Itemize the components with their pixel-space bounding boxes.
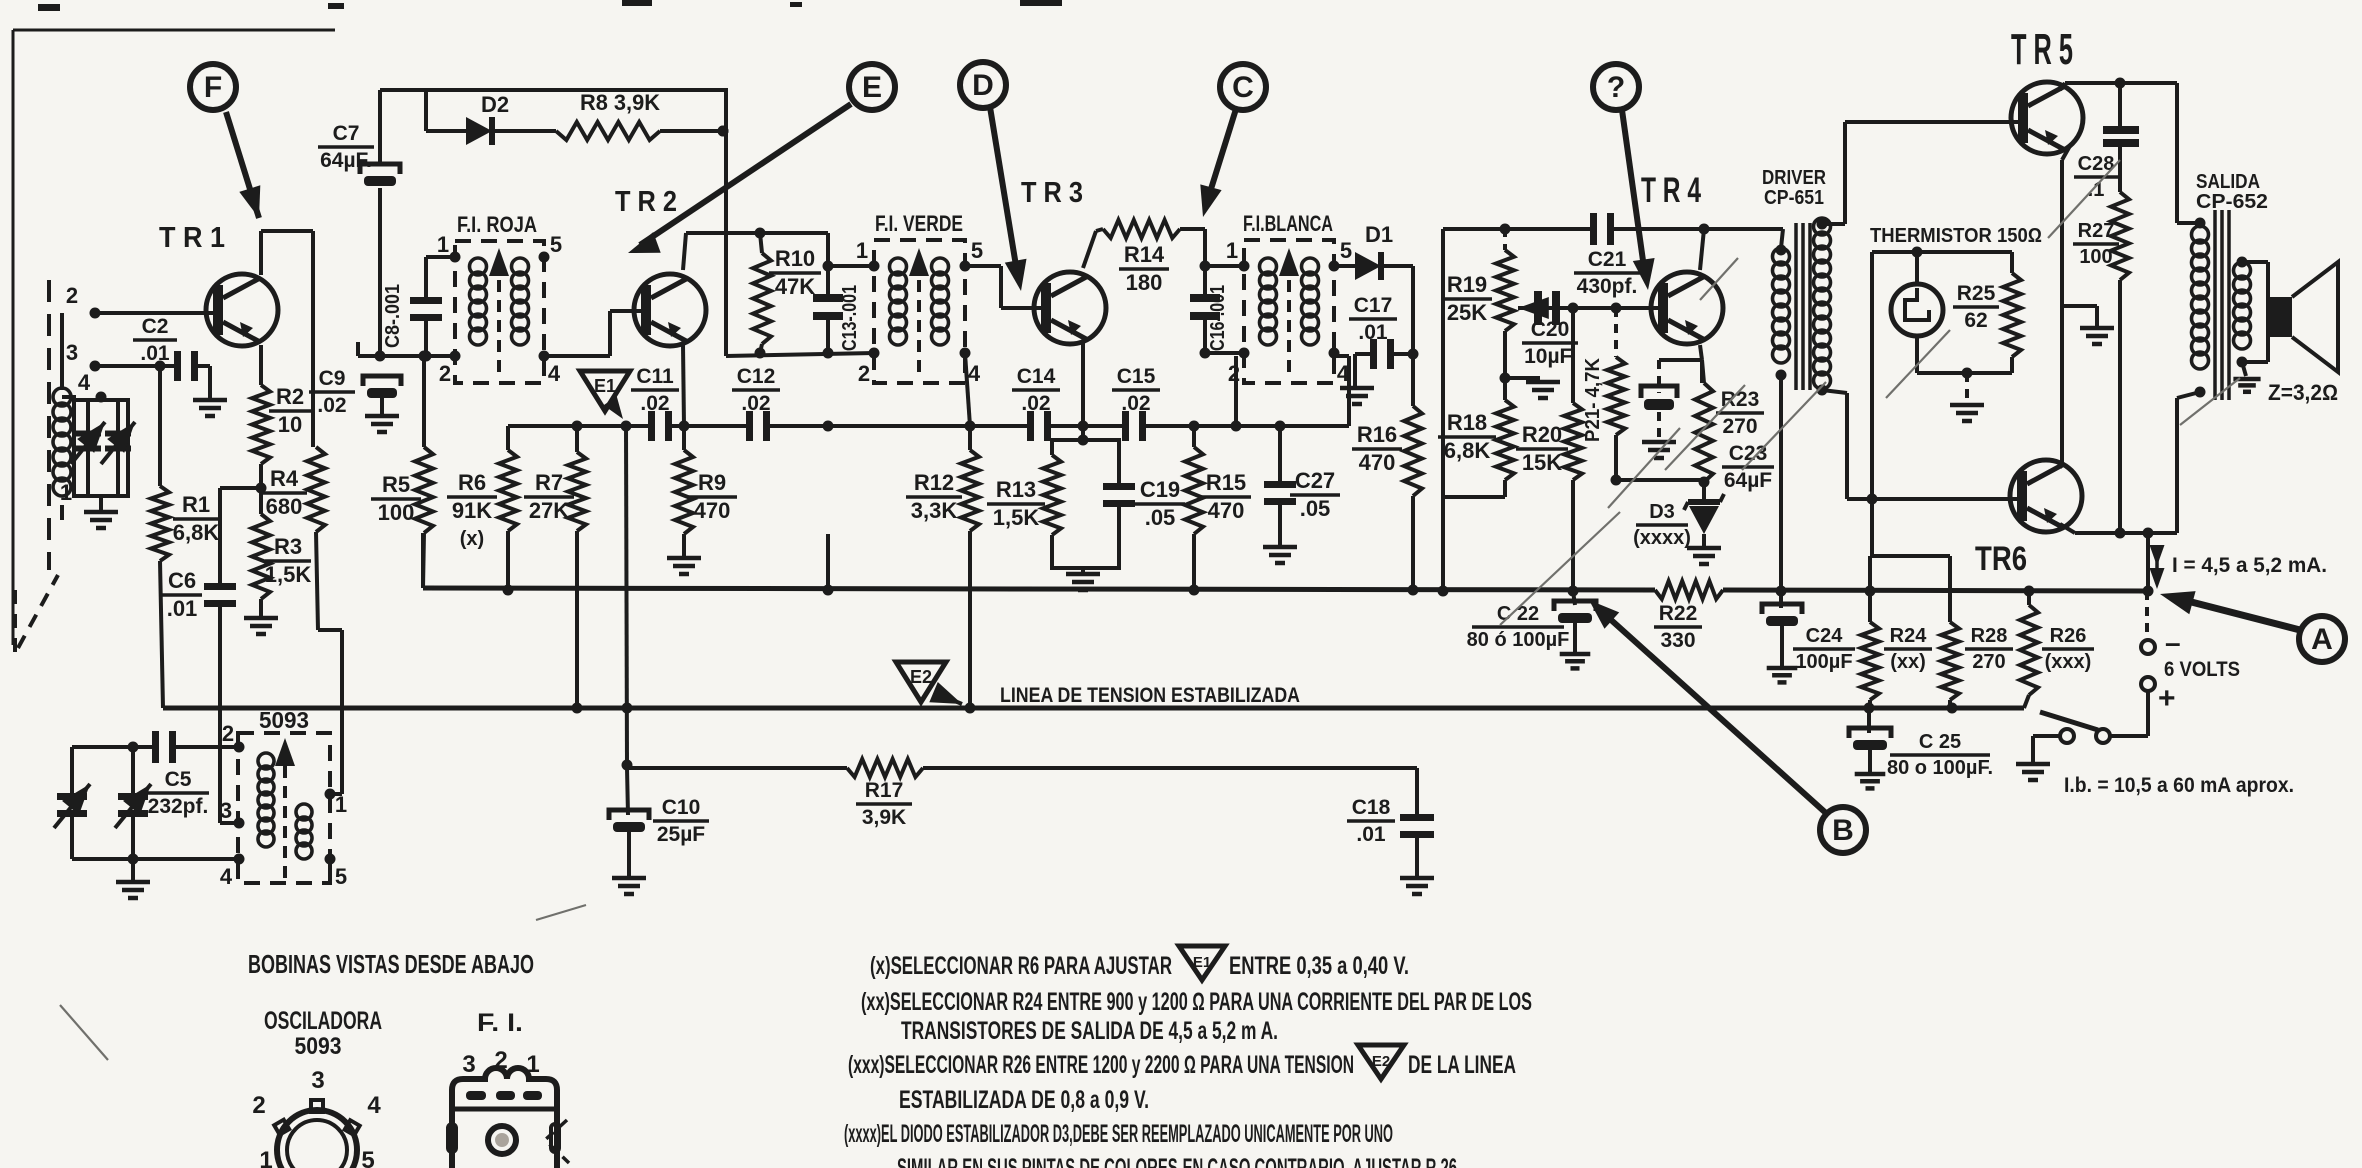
svg-text:R13: R13: [996, 477, 1036, 502]
capacitor C6: [204, 583, 236, 607]
svg-text:C12: C12: [737, 365, 776, 388]
wire C8 to ROJA pin1: [426, 255, 455, 259]
resistor R27: [2111, 192, 2129, 533]
switch: [2040, 712, 2110, 743]
svg-text:64µF.: 64µF.: [320, 149, 372, 172]
svg-text:R2: R2: [276, 384, 304, 409]
transistor TR3: [1034, 272, 1106, 344]
svg-text:C27: C27: [1295, 468, 1335, 493]
resistor R13: [1043, 455, 1061, 535]
wire y353 row: [726, 353, 874, 356]
svg-text:62: 62: [1964, 309, 1987, 332]
node R28 bus708: [1947, 703, 1958, 714]
svg-text:.01: .01: [140, 342, 170, 365]
wire TR4 base row: [1568, 303, 1659, 314]
svg-text:.1: .1: [2088, 179, 2105, 201]
label C5: [147, 768, 209, 818]
node thermistor chain bus590: [1865, 586, 1876, 597]
F.I. VERDE secondary winding: [932, 258, 949, 345]
wire R18 bottom link: [1443, 495, 1505, 499]
wire bus426 segment2: [668, 424, 750, 428]
test point B: [1820, 807, 1866, 853]
label R8 3,9K: [580, 90, 660, 115]
svg-text:C 25: C 25: [1919, 731, 1961, 753]
wire osc pin5 down: [328, 859, 332, 883]
resistor R2: [252, 385, 270, 464]
test point D: [960, 62, 1006, 108]
current arrows: [2150, 545, 2165, 589]
svg-text:R12: R12: [914, 470, 954, 495]
capacitor C11: [648, 411, 672, 441]
label R25: [1953, 282, 1999, 332]
svg-text:E2: E2: [1372, 1053, 1390, 1070]
ground C25: [1855, 774, 1886, 788]
ground emitter cap: [1642, 442, 1676, 458]
capacitor C10: [609, 768, 649, 876]
wire antenna pin3 row: [95, 364, 160, 368]
resistor R16: [1404, 354, 1422, 590]
label linea: [1000, 684, 1300, 707]
osc pin 3: [220, 798, 245, 829]
svg-text:(xx): (xx): [1890, 651, 1926, 673]
svg-text:R26: R26: [2050, 625, 2087, 647]
label C10: [653, 796, 709, 846]
label R16: [1352, 422, 1402, 475]
label R26: [2042, 625, 2094, 673]
svg-text:80 o 100µF.: 80 o 100µF.: [1887, 757, 1993, 779]
node C27 top: [1275, 421, 1286, 432]
wire C7 to junction: [378, 188, 382, 356]
svg-text:.02: .02: [1021, 392, 1050, 415]
wire osc pin1 link: [330, 792, 342, 796]
wire R17 bus: [622, 760, 1418, 771]
svg-text:330: 330: [1660, 629, 1695, 652]
svg-text:E2: E2: [910, 667, 932, 687]
svg-text:5093: 5093: [259, 707, 309, 733]
label 5093: [259, 707, 309, 733]
svg-text:CP-651: CP-651: [1764, 186, 1824, 209]
svg-text:F. I.: F. I.: [477, 1009, 523, 1037]
wire TR5 emitter down: [2062, 144, 2071, 462]
test point E1 triangle: [580, 371, 630, 419]
arrow from test point to TR4 base: [1622, 110, 1655, 290]
resistor R23: [1695, 360, 1713, 482]
svg-text:3: 3: [462, 1051, 475, 1078]
wire TR4 collector: [1700, 229, 1704, 270]
svg-text:180: 180: [1126, 270, 1163, 295]
node varcap2 top: [128, 742, 139, 753]
label R1: [173, 492, 220, 545]
osc pin 2: [222, 721, 245, 753]
label C12: [732, 365, 780, 415]
svg-text:R19: R19: [1447, 272, 1487, 297]
label C23: [1722, 442, 1774, 492]
resistor R1: [151, 486, 169, 561]
note xxx line2: [899, 1086, 1149, 1114]
capacitor C16: [1190, 229, 1220, 359]
speaker: [2266, 262, 2338, 372]
node R12 VERDE pin4 bus: [965, 421, 976, 432]
wire TR1 collector up: [261, 231, 313, 275]
svg-text:ESTABILIZADA DE 0,8 a 0,9 V: ESTABILIZADA DE 0,8 a 0,9 V.: [899, 1086, 1149, 1114]
svg-text:C11: C11: [636, 365, 674, 388]
resistor R26: [2020, 586, 2038, 709]
label R7: [524, 470, 574, 523]
svg-text:4: 4: [548, 361, 561, 386]
svg-text:2: 2: [439, 361, 451, 386]
svg-text:LINEA DE TENSION ESTABILIZAD: LINEA DE TENSION ESTABILIZADA: [1000, 684, 1300, 707]
svg-text:270: 270: [1972, 651, 2005, 673]
diode D2: [466, 117, 556, 145]
capacitor C15: [1122, 411, 1146, 441]
svg-text:80 ó 100µF: 80 ó 100µF: [1467, 629, 1570, 651]
capacitor C27: [1264, 426, 1296, 545]
antenna ferrite rod dashed line: [47, 280, 51, 570]
wire x626 down to C10 node: [626, 426, 627, 768]
capacitor C9 electrolytic: [363, 376, 401, 398]
VERDE pin 1: [856, 238, 880, 272]
label C27: [1290, 468, 1340, 521]
node R20 C22 bus590: [1568, 586, 1579, 597]
label C20: [1522, 318, 1578, 368]
capacitor C24: [1762, 591, 1802, 666]
capacitor C5: [152, 731, 239, 763]
svg-text:R27: R27: [2078, 220, 2115, 242]
svg-text:3,9K: 3,9K: [862, 806, 906, 829]
svg-text:I = 4,5 a 5,2 mA.: I = 4,5 a 5,2 mA.: [2172, 554, 2327, 577]
label C8 vertical: [382, 284, 404, 348]
resistor R12: [961, 426, 979, 708]
svg-text:64µF: 64µF: [1724, 469, 1772, 492]
svg-text:TRANSISTORES DE SALIDA DE 4,5: TRANSISTORES DE SALIDA DE 4,5 a 5,2 m A.: [901, 1017, 1278, 1045]
osc coil 5093 dashed box: [238, 733, 330, 883]
svg-text:R15: R15: [1206, 470, 1246, 495]
svg-text:Z=3,2Ω: Z=3,2Ω: [2268, 380, 2338, 405]
label TR1: [159, 222, 225, 254]
wire primary bottom link: [2177, 392, 2200, 533]
svg-text:R9: R9: [698, 470, 726, 495]
osc tuning arrow: [275, 738, 295, 878]
svg-text:5: 5: [971, 238, 983, 263]
svg-text:2: 2: [252, 1092, 265, 1119]
svg-text:470: 470: [1208, 498, 1245, 523]
svg-text:R24: R24: [1890, 625, 1928, 647]
battery minus terminal: [2141, 627, 2181, 658]
svg-text:25K: 25K: [1447, 300, 1487, 325]
wire osc C5 row: [72, 745, 152, 749]
label Z: [2268, 380, 2338, 405]
ground C10: [612, 878, 646, 894]
svg-text:BOBINAS VISTAS DESDE ABAJO: BOBINAS VISTAS DESDE ABAJO: [248, 949, 534, 979]
F.I. BLANCA secondary winding: [1302, 258, 1319, 345]
svg-text:C10: C10: [662, 796, 701, 819]
resistor R3: [252, 514, 270, 599]
label C7: [318, 122, 374, 172]
svg-text:100: 100: [2079, 246, 2112, 268]
node current measure: [2143, 528, 2154, 597]
svg-text:C15: C15: [1117, 365, 1156, 388]
label D2: [481, 92, 509, 117]
wire R1 bottom to linea bus: [160, 561, 163, 708]
FI can drawing: [448, 1068, 569, 1168]
label R19: [1442, 272, 1492, 325]
wire D2 row: [426, 90, 466, 131]
BLANCA pin 1: [1226, 238, 1250, 272]
label Ib: [2064, 774, 2294, 797]
node TR4 collector top: [1699, 224, 1710, 235]
variable capacitor CV1 antenna: [71, 400, 105, 496]
node C28 top: [2115, 78, 2126, 89]
svg-text:SIMILAR EN SUS PINTAS DE COLOR: SIMILAR EN SUS PINTAS DE COLORES-EN CASO…: [897, 1154, 1457, 1168]
node x626 bus: [622, 703, 633, 714]
svg-text:E: E: [862, 71, 882, 104]
node BLANCA pin2 bus: [1231, 421, 1242, 432]
node R15 bus590: [1189, 585, 1200, 596]
svg-text:5: 5: [550, 232, 562, 257]
wire P21 bottom row: [1611, 475, 1710, 488]
wire BLANCA pin2 drop: [1234, 356, 1238, 426]
label C11: [631, 365, 679, 415]
wire R2R3 junction to C6: [220, 488, 261, 586]
svg-text:TR6: TR6: [1975, 540, 2027, 578]
svg-text:R7: R7: [535, 470, 563, 495]
diode D3 zener: [1684, 482, 1724, 546]
svg-text:.01: .01: [167, 596, 198, 621]
label R22: [1654, 602, 1702, 652]
tuning gang loop: [62, 397, 128, 496]
svg-text:1: 1: [60, 480, 72, 505]
svg-text:(xxx): (xxx): [2045, 651, 2092, 673]
label C28: [2074, 153, 2118, 201]
svg-text:27K: 27K: [529, 498, 569, 523]
svg-text:+: +: [2158, 682, 2176, 715]
svg-text:2: 2: [1228, 361, 1240, 386]
svg-text:D2: D2: [481, 92, 509, 117]
label C16 vertical: [1207, 285, 1229, 351]
ground C2: [193, 366, 227, 416]
svg-text:.02: .02: [317, 394, 346, 417]
svg-text:R28: R28: [1971, 625, 2008, 647]
osc pin 4: [220, 854, 245, 890]
antenna pin 4: [78, 370, 107, 403]
svg-text:T R 5: T R 5: [2011, 25, 2073, 74]
label 5093 bottom: [295, 1033, 342, 1060]
label FI bottom: [477, 1009, 523, 1037]
scan border lines: [13, 0, 1062, 645]
resistor R6: [499, 426, 517, 588]
svg-text:47K: 47K: [775, 274, 815, 299]
oscillator varcap left: [54, 747, 90, 859]
capacitor C14: [1027, 411, 1051, 441]
node C25 bus: [1864, 703, 1875, 714]
wire antenna pin2 to TR1 base: [95, 311, 215, 315]
R19 wiper arrow: [1518, 297, 1560, 319]
node E1 junction: [621, 421, 632, 432]
svg-text:6,8K: 6,8K: [173, 520, 220, 545]
capacitor C17: [1355, 339, 1419, 369]
svg-text:6,8K: 6,8K: [1444, 438, 1491, 463]
wire C13 to VERDE pin1: [823, 261, 875, 272]
label R27: [2073, 220, 2119, 268]
wire thermistor left vertical: [1867, 252, 1878, 556]
emitter bypass cap dashed: [1641, 360, 1702, 440]
variable capacitor CV2 antenna: [101, 400, 135, 496]
label C24: [1793, 625, 1855, 673]
svg-text:CP-652: CP-652: [2196, 190, 2268, 213]
capacitor C19: [1103, 455, 1135, 535]
svg-text:4: 4: [968, 361, 981, 386]
ROJA pin 5: [539, 232, 563, 263]
salida core: [2215, 210, 2229, 400]
resistor R25: [2003, 252, 2021, 373]
svg-text:R5: R5: [382, 472, 410, 497]
wire bus426 segment4: [1047, 424, 1127, 428]
label C9: [309, 367, 355, 417]
F.I. ROJA tuning arrow: [489, 248, 509, 372]
svg-text:F: F: [204, 71, 222, 104]
svg-text:25µF: 25µF: [657, 823, 705, 846]
osciladora base drawing: [274, 1100, 360, 1168]
transistor TR4: [1651, 272, 1723, 344]
capacitor C12: [746, 411, 770, 441]
svg-text:R17: R17: [865, 779, 904, 802]
oscillator varcap mid: [115, 747, 151, 859]
wire TR3 emitter: [1081, 343, 1085, 440]
wire TR1 collector to osc pin1: [311, 231, 315, 447]
osc secondary winding: [296, 804, 312, 859]
svg-text:E1: E1: [1193, 954, 1211, 971]
F.I. ROJA secondary winding: [512, 258, 529, 345]
label R24: [1884, 625, 1932, 673]
wire bus426 segment1: [508, 424, 651, 428]
resistor R19 pot: [1496, 224, 1514, 379]
node R7 bottom bus: [572, 703, 583, 714]
capacitor C13: [813, 233, 843, 359]
ground C27: [1263, 547, 1297, 563]
F.I. BLANCA tuning arrow: [1279, 248, 1299, 372]
osc base pin labels: [252, 1067, 381, 1168]
svg-text:.02: .02: [1121, 392, 1150, 415]
ROJA pin 4: [539, 351, 561, 387]
svg-text:91K: 91K: [452, 498, 492, 523]
svg-text:2: 2: [66, 283, 78, 308]
wire TR5 collector to salida: [2177, 83, 2200, 223]
thermistor symbol: [1891, 252, 1943, 373]
wire BLANCA pin5 to D1: [1334, 264, 1355, 268]
arrow from B to bus590: [1589, 600, 1827, 814]
svg-text:R14: R14: [1124, 242, 1165, 267]
svg-text:(xxx)SELECCIONAR R26 ENTRE 120: (xxx)SELECCIONAR R26 ENTRE 1200 y 2200 Ω…: [848, 1051, 1354, 1079]
resistor R4: [307, 447, 342, 794]
VERDE pin 2: [858, 348, 880, 387]
wire x726 vertical: [718, 90, 729, 356]
wire switch to ground: [2033, 736, 2060, 762]
label F.I. VERDE: [875, 211, 963, 236]
battery dashed link: [2145, 591, 2149, 640]
wire TR2 collector: [683, 233, 828, 270]
svg-text:.02: .02: [741, 392, 770, 415]
label bobinas: [248, 949, 534, 979]
svg-text:R6: R6: [458, 470, 486, 495]
label TR6: [1975, 540, 2027, 578]
svg-text:P21- 4,7K: P21- 4,7K: [1582, 357, 1604, 442]
capacitor C28: [2103, 83, 2139, 192]
label R28: [1965, 625, 2013, 673]
wire battery plus down: [2110, 691, 2148, 736]
test point unlabeled: [1593, 64, 1639, 110]
test point A: [2299, 616, 2345, 662]
dashed gang link arrow: [15, 575, 58, 660]
wire C6 to osc pin3: [220, 604, 239, 823]
label C17: [1349, 294, 1397, 344]
svg-text:(x)SELECCIONAR R6 PARA AJUSTA: (x)SELECCIONAR R6 PARA AJUSTAR: [870, 952, 1172, 980]
wire driver secondary top to TR5 base: [1817, 122, 2019, 230]
wire driver secondary bottom to TR6 base: [1817, 385, 2018, 500]
VERDE pin 5: [960, 238, 984, 272]
potentiometer P21: [1607, 308, 1625, 480]
node R27 bottom: [2115, 528, 2126, 539]
osc primary winding: [258, 753, 274, 847]
svg-text:3: 3: [311, 1067, 324, 1094]
wire C7 branch: [378, 90, 382, 162]
svg-text:3,3K: 3,3K: [911, 498, 958, 523]
svg-text:R22: R22: [1659, 602, 1698, 625]
ground TR5 emitter: [2062, 306, 2114, 344]
wire VERDE pin5 to TR3 base: [965, 266, 1043, 308]
svg-text:E1: E1: [594, 376, 616, 396]
salida primary winding: [2192, 218, 2209, 398]
wire bus590 right: [1723, 590, 2147, 591]
label R3: [265, 534, 312, 587]
svg-text:15K: 15K: [1522, 450, 1562, 475]
capacitor C22: [1554, 591, 1596, 652]
svg-text:C18: C18: [1352, 796, 1391, 819]
F.I. ROJA dashed box: [455, 241, 544, 383]
svg-text:1: 1: [437, 232, 449, 257]
label TR4: [1641, 171, 1701, 210]
node TR1 emitter bias: [256, 464, 267, 514]
wire TR3 collector: [1083, 229, 1103, 268]
svg-text:D: D: [972, 69, 994, 102]
node R11 top: [823, 421, 834, 432]
antenna pin 2: [66, 283, 101, 319]
svg-text:4: 4: [367, 1092, 381, 1119]
node R19 R18 ground: [1500, 373, 1561, 399]
svg-text:C24: C24: [1806, 625, 1844, 647]
svg-text:430pf.: 430pf.: [1577, 275, 1638, 298]
capacitor C7 electrolytic: [360, 164, 400, 186]
ground antenna gang: [84, 496, 118, 528]
driver core: [1796, 223, 1810, 390]
label C22: [1467, 603, 1570, 651]
svg-text:C5: C5: [165, 768, 192, 791]
wire TR6 collector: [2060, 462, 2062, 468]
svg-text:100µF: 100µF: [1795, 651, 1852, 673]
svg-text:F.I. ROJA: F.I. ROJA: [457, 212, 537, 237]
svg-text:R25: R25: [1957, 282, 1996, 305]
ground C18: [1400, 878, 1434, 894]
wire y353 to BLANCA pin2: [1205, 351, 1244, 355]
svg-text:6 VOLTS: 6 VOLTS: [2164, 658, 2240, 681]
wire bus426 segment5: [1142, 424, 1349, 428]
svg-text:3: 3: [66, 340, 78, 365]
arrow from A to bus: [2160, 591, 2300, 630]
resistor R15: [1185, 426, 1203, 590]
label TR5: [2011, 25, 2073, 74]
wire R5 corner: [421, 533, 425, 588]
wire C21 to TR4 collector: [1612, 227, 1783, 231]
resistor R24: [1861, 622, 1879, 708]
